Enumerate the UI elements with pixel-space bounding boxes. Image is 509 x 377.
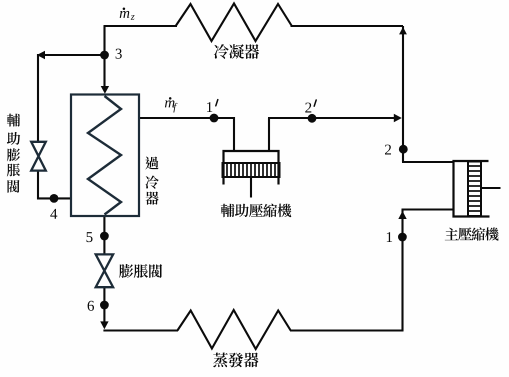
main compressor cylinder: [454, 161, 490, 217]
auxiliary compressor rod: [250, 177, 252, 198]
label condenser (冷凝器): [214, 44, 259, 59]
wire auxiliary expansion valve to node 4 corner: [37, 171, 39, 200]
label 6: [88, 301, 94, 311]
label mdot f (mass flow into subcooler branch): [165, 97, 177, 112]
label auxiliary compressor (輔助壓縮機): [221, 204, 292, 218]
wire auxiliary compressor inlet drop: [233, 117, 235, 151]
wire top-left horizontal to condenser: [104, 25, 178, 27]
label subcooler (過冷器) vertical: [145, 157, 158, 205]
wire node 2 prime horizontal: [268, 117, 395, 119]
wire node 4 horizontal into subcooler: [37, 197, 71, 199]
wire node 3 down toward subcooler: [103, 54, 105, 87]
wire evaporator to bottom-right corner: [290, 329, 404, 331]
node 5 junction dot: [100, 232, 109, 241]
label auxiliary expansion valve (輔助膨脹閥) vertical: [7, 114, 20, 193]
arrow down into subcooler: [101, 86, 109, 94]
wire right vertical from top corner down to node 2 corner: [402, 26, 404, 162]
label expansion valve (膨脹閥): [119, 264, 162, 278]
label 2 prime: [305, 100, 316, 113]
label 4: [50, 209, 57, 219]
subcooler internal coil (vertical zigzag): [88, 96, 121, 215]
auxiliary compressor cylinder: [224, 151, 279, 185]
wire left vertical down to auxiliary expansion valve: [37, 54, 39, 142]
wire node 3 left branch: [44, 54, 105, 56]
expansion valve (hourglass): [96, 254, 113, 287]
auxiliary compressor piston (hatched): [223, 163, 280, 177]
wire expansion valve to node 6: [103, 287, 105, 323]
auxiliary expansion valve (hourglass): [31, 142, 46, 171]
label 5: [87, 232, 93, 242]
wire from node 2 corner to main compressor inlet: [402, 161, 454, 163]
label 1: [387, 232, 392, 242]
label 2: [385, 145, 391, 155]
arrow left at end of node 3 branch: [37, 51, 45, 59]
arrow up into condenser line at top right: [399, 27, 407, 34]
label main compressor (主壓縮機): [445, 227, 499, 240]
wire main compressor suction pipe (bottom): [402, 208, 455, 210]
wire condenser to top-right corner: [291, 25, 404, 27]
node 1 prime junction dot: [210, 114, 219, 123]
arrow right into right vertical line: [394, 114, 402, 122]
node 1 junction dot: [398, 233, 407, 242]
arrow up at main compressor suction corner: [398, 211, 406, 219]
condenser coil (zigzag): [176, 4, 292, 42]
node 2 prime junction dot: [308, 114, 317, 123]
wire auxiliary compressor outlet riser: [268, 118, 270, 151]
node 4 junction dot: [50, 194, 59, 203]
node 6 junction dot: [100, 301, 109, 310]
node 3 junction dot: [100, 51, 109, 60]
main compressor rod: [481, 187, 501, 189]
label evaporator (蒸發器): [213, 352, 258, 367]
label 3: [116, 49, 122, 59]
node 2 junction dot: [399, 145, 408, 154]
wire from node 3 up to condenser line: [103, 26, 105, 55]
main compressor piston (hatched): [468, 162, 481, 217]
wire subcooler bottom to expansion valve: [103, 215, 105, 255]
subcooler shell (box): [71, 95, 139, 217]
wire bottom-right vertical through node 1: [401, 210, 403, 332]
label 1 prime: [207, 100, 218, 112]
wire bottom-left horizontal to evaporator: [103, 329, 178, 331]
label mdot z (mass flow into condenser): [120, 8, 135, 20]
wire subcooler outlet to node 1 prime: [139, 117, 234, 119]
evaporator coil (zigzag): [177, 310, 290, 349]
arrow down at bottom-left corner: [100, 321, 108, 329]
